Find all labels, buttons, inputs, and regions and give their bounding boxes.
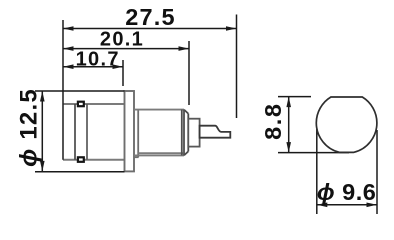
dim 8.8 line [288, 97, 290, 153]
arrow 10.7 right [113, 64, 124, 69]
arrowheads [40, 26, 377, 207]
dim phi9.6 right extension [376, 130, 378, 214]
dim phi12.5 top extension [35, 90, 125, 92]
arrow 20.1 right [179, 46, 190, 51]
ring behind flange [134, 110, 139, 158]
dimension graphics [35, 15, 377, 215]
mounting flange [125, 91, 135, 171]
rear collar [188, 119, 199, 147]
dim phi9.6 line [317, 204, 377, 206]
arrow 8.8 bottom [286, 142, 291, 153]
barrel chamfered end [184, 110, 188, 156]
body inner ring line right [86, 104, 88, 160]
arrow 10.7 left [63, 64, 74, 69]
dim 27.5 line [63, 28, 237, 30]
dim 10.7 right extension line [122, 60, 124, 86]
dim 8.8 top extension [278, 96, 311, 98]
arrow phi12.5 bottom [40, 161, 45, 172]
svg-text:27.5: 27.5 [125, 4, 176, 30]
dim 10.7 line [63, 66, 123, 68]
svg-text:ϕ 12.5: ϕ 12.5 [16, 88, 43, 167]
barrel end double ring [182, 110, 184, 156]
retaining square bottom [78, 157, 84, 162]
solder tab [200, 126, 231, 138]
arrow phi9.6 right [367, 203, 378, 208]
arrow 27.5 left [63, 26, 74, 31]
arrow 27.5 right [226, 26, 237, 31]
arrow 8.8 top [286, 97, 291, 108]
arrow phi12.5 top [40, 91, 45, 102]
body left edge + dimension extension line [62, 20, 64, 160]
svg-text:8.8: 8.8 [260, 102, 286, 139]
dim phi12.5 line [41, 91, 43, 171]
svg-text:ϕ 9.6: ϕ 9.6 [317, 179, 377, 205]
dim 8.8 bottom extension [278, 152, 349, 154]
dim 20.1 right extension line [188, 41, 190, 105]
body inner ring line left [74, 104, 76, 160]
dim 20.1 line [63, 48, 189, 50]
arrow phi9.6 left [317, 203, 328, 208]
arrow 20.1 left [63, 46, 74, 51]
dim phi9.6 left extension [316, 129, 318, 214]
dim 27.5 right extension line [236, 15, 238, 119]
end view circle with flats [316, 97, 377, 152]
connector body outer barrel (side view) [63, 104, 125, 160]
threaded barrel [134, 110, 184, 156]
dim phi12.5 bottom extension [35, 171, 125, 173]
retaining square top [78, 102, 84, 107]
svg-text:20.1: 20.1 [100, 28, 144, 50]
svg-text:10.7: 10.7 [76, 48, 120, 70]
